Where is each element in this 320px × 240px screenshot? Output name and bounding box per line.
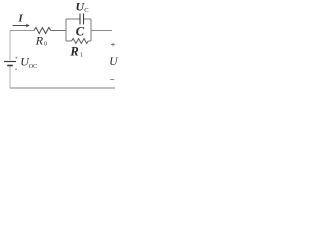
svg-text:C: C	[84, 7, 88, 14]
battery plus dot	[16, 57, 18, 59]
battery U_OC short plate	[7, 65, 13, 67]
svg-text:0: 0	[44, 42, 47, 48]
parallel box right edge	[90, 19, 92, 41]
wire: left vertical from top corner down to battery	[9, 31, 11, 61]
wire: box right to output terminal	[91, 30, 112, 32]
wire: left vertical from battery down to bottom wire	[9, 67, 11, 89]
plus sign output	[111, 43, 115, 47]
resistor R0 zigzag	[34, 28, 51, 34]
svg-text:1: 1	[80, 52, 83, 58]
svg-text:U: U	[109, 56, 118, 68]
svg-text:R: R	[69, 44, 78, 58]
parallel box bottom edge left stub	[66, 40, 72, 42]
parallel box top edge with capacitor gap	[66, 18, 80, 20]
capacitor C right plate	[83, 14, 85, 25]
parallel box bottom edge right stub	[88, 40, 91, 42]
wire: R0 to parallel box	[51, 30, 66, 32]
current arrow for I	[13, 25, 29, 27]
wire: bottom horizontal	[10, 87, 115, 89]
svg-text:R: R	[35, 34, 44, 48]
resistor R1 zigzag	[72, 39, 89, 44]
capacitor C left plate	[79, 14, 81, 25]
wire: top-left horizontal from left corner to R0	[10, 30, 34, 32]
minus sign output	[110, 79, 114, 81]
svg-text:C: C	[76, 25, 85, 39]
parallel box left edge	[65, 19, 67, 41]
svg-text:OC: OC	[29, 64, 37, 70]
battery U_OC long plate	[4, 61, 16, 63]
svg-text:I: I	[17, 13, 23, 25]
battery minus dot	[15, 69, 17, 70]
